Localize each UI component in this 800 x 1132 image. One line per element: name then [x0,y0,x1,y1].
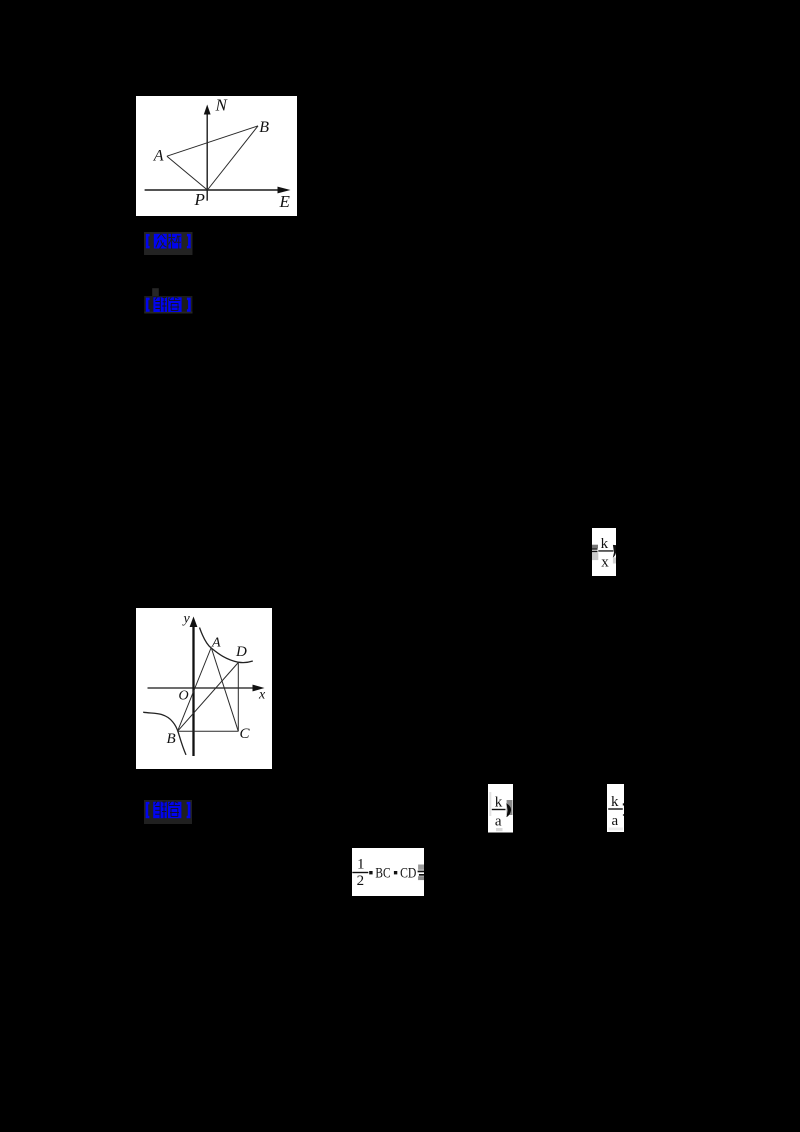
svg-text:B: B [166,731,175,747]
figure 1: bearing diagram N/E with triangle APB [136,96,297,216]
triangle lines [166,156,207,190]
chords [177,647,211,731]
svg-text:C: C [239,726,250,742]
x axis [147,687,256,689]
svg-text:B: B [259,118,269,135]
svg-text:2: 2 [357,873,365,889]
svg-text:O: O [178,688,188,703]
E axis [144,189,281,191]
svg-text:x: x [601,554,609,570]
svg-text:E: E [278,191,290,210]
svg-text:A: A [211,635,221,650]
svg-text:y: y [181,611,190,626]
equation box k/a (second) [607,784,624,832]
svg-text:k: k [611,794,619,810]
svg-text:N: N [214,96,228,115]
hyperbola branch Q1 [199,627,252,662]
hyperbola branch Q3 [143,712,186,755]
svg-text:x: x [258,687,266,702]
equation box 1/2·BC·CD= [352,848,424,896]
svg-text:k: k [601,535,609,551]
equation box k/a with ) [488,784,513,833]
blue label 3 【解答】 [144,800,192,824]
figure 2: hyperbola diagram [136,608,272,769]
svg-text:BC: BC [375,865,390,881]
N axis [206,113,208,201]
svg-text:A: A [152,147,163,164]
svg-text:1: 1 [357,856,365,872]
svg-text:k: k [494,795,502,811]
svg-text:P: P [193,189,204,208]
svg-text:D: D [235,644,247,660]
svg-text:a: a [612,813,619,829]
y axis [192,625,194,756]
blue label 1 【分析】 [144,232,193,256]
svg-text:a: a [494,814,501,830]
equation box =k/x, [592,528,616,577]
svg-text:CD: CD [400,865,416,881]
blue label 2 【解答】 [144,288,193,314]
